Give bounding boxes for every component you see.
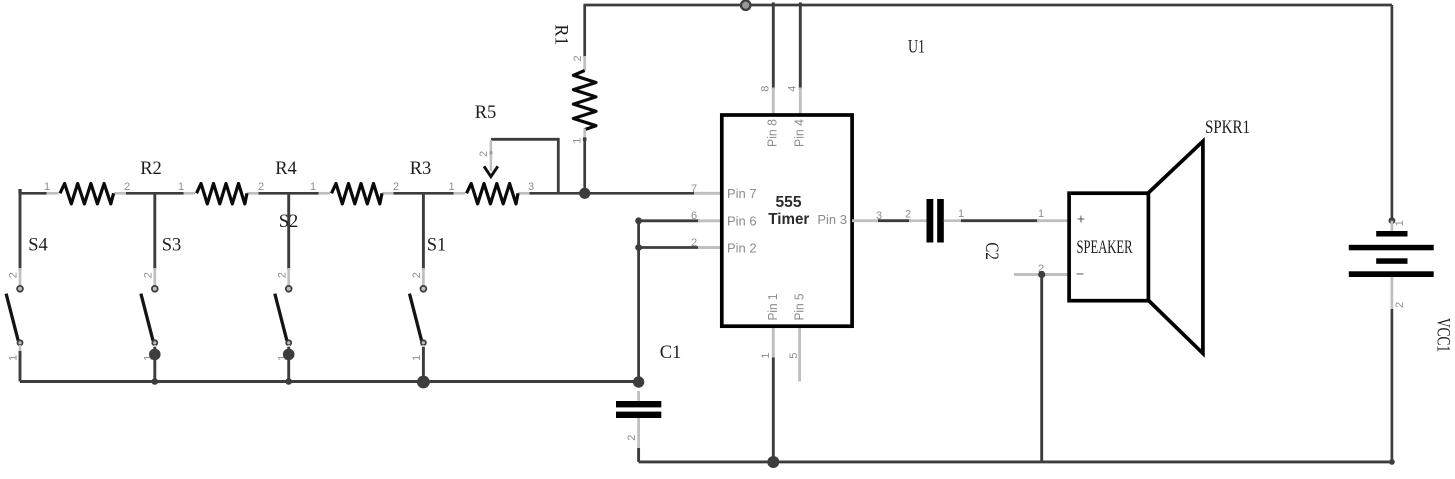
svg-text:−: −	[1076, 266, 1084, 282]
svg-text:2: 2	[478, 151, 490, 157]
capacitor C1 bottom plate	[616, 412, 661, 418]
pin marker: R1 pin 1	[583, 137, 587, 141]
svg-text:2: 2	[276, 272, 288, 278]
pin stub: U1 pin 6	[698, 219, 722, 222]
wire: top rail down to battery	[1391, 5, 1394, 221]
pin stub: U1 pin 8	[772, 88, 775, 115]
svg-text:C2: C2	[981, 242, 1001, 260]
capacitor C1 top plate	[616, 401, 661, 407]
svg-text:Pin 1: Pin 1	[765, 294, 780, 321]
svg-text:555: 555	[776, 194, 802, 211]
wire: node A down to S4	[19, 192, 22, 270]
svg-text:Pin 3: Pin 3	[817, 212, 847, 227]
wire: S1 pin1 to rail	[422, 347, 425, 382]
svg-text:R1: R1	[551, 25, 571, 46]
svg-text:3: 3	[528, 181, 534, 193]
pin stub: R3 pin 2	[382, 192, 396, 195]
svg-text:Pin 6: Pin 6	[727, 214, 757, 229]
pin stub: R1 pin 1	[583, 129, 586, 142]
node A corner nub	[18, 189, 21, 194]
node: battery pin 1 junction	[1389, 217, 1396, 224]
wire: bottom ground rail	[639, 460, 1392, 463]
svg-text:S3: S3	[162, 236, 182, 256]
svg-text:1: 1	[411, 355, 423, 361]
svg-text:7: 7	[691, 183, 697, 195]
pin stub: S3 pin 1	[153, 345, 156, 361]
battery VCC1 plate 3 (short)	[1376, 258, 1407, 264]
svg-text:1: 1	[44, 181, 50, 193]
svg-text:1: 1	[572, 138, 584, 144]
resistor R4	[197, 184, 248, 204]
wire: R2/R4 node down to S3	[153, 193, 156, 269]
svg-text:U1: U1	[908, 38, 925, 58]
switch S2 top terminal	[286, 286, 292, 292]
node: C1 top junction	[633, 376, 644, 387]
svg-text:R2: R2	[140, 159, 162, 179]
pin stub: S1 pin 1	[422, 345, 425, 361]
svg-text:2: 2	[142, 272, 154, 278]
wire: S3 pin1 to rail	[153, 347, 156, 382]
wire: pin 3 to C2	[878, 219, 911, 222]
resistor R3	[332, 184, 383, 204]
pin marker: R5 pin 2	[490, 151, 493, 154]
svg-text:6: 6	[691, 210, 697, 222]
wire: bottom-left rail	[20, 380, 639, 383]
switch S4 bottom terminal	[18, 340, 23, 345]
svg-text:Pin 7: Pin 7	[727, 186, 757, 201]
svg-text:Pin 2: Pin 2	[727, 241, 757, 256]
node: R1/R5/pin7 junction	[579, 188, 590, 199]
switch S2 blade	[275, 294, 287, 341]
wire: pin 1 to bottom rail	[772, 358, 775, 462]
wire: pin 8 vertical from rail	[772, 2, 775, 89]
pin stub: C2 pin 1	[944, 219, 963, 222]
pin stub: U1 pin 2	[698, 246, 722, 249]
svg-text:1: 1	[8, 355, 20, 361]
switch S4 top terminal	[17, 286, 23, 292]
pin stub: S2 pin 1	[287, 345, 290, 361]
switch S1 blade	[410, 294, 422, 341]
svg-text:Pin 8: Pin 8	[765, 119, 780, 147]
svg-text:2: 2	[411, 272, 423, 278]
switch S3 bottom terminal	[152, 340, 157, 345]
svg-text:4: 4	[786, 86, 798, 92]
svg-text:2: 2	[572, 55, 584, 61]
pin stub: speaker pin 2	[1014, 273, 1068, 276]
wire: R4/R3 node down to S2	[287, 193, 290, 269]
svg-text:1: 1	[178, 181, 184, 193]
svg-text:2: 2	[626, 435, 638, 441]
switch S1 top terminal	[421, 286, 427, 292]
switch S3 blade	[141, 294, 153, 341]
svg-text:Timer: Timer	[768, 211, 809, 228]
pin stub: R4 pin 1	[182, 192, 196, 195]
switch S3 top terminal	[152, 286, 158, 292]
node: pin6 junction	[635, 217, 642, 224]
capacitor C2 right plate	[937, 199, 944, 243]
wire: top VCC rail	[585, 4, 1392, 7]
svg-text:2: 2	[691, 237, 697, 249]
pin stub: R5 pin 2 wiper	[490, 140, 493, 171]
switch S2 bottom terminal	[286, 340, 291, 345]
pin stub: R2 pin 1	[44, 192, 59, 195]
svg-text:Pin 5: Pin 5	[792, 294, 807, 321]
svg-text:Pin 4: Pin 4	[792, 119, 807, 147]
wire: battery pin 2 down to ground rail	[1391, 309, 1394, 462]
pin stub: speaker pin 1	[1037, 219, 1068, 222]
pin stub: R5 pin 3	[518, 192, 532, 195]
svg-text:1: 1	[310, 181, 316, 193]
switch S1 bottom terminal	[421, 340, 426, 345]
node: top rail junction	[741, 1, 750, 10]
wire: R5.3 to U1 pin 7	[530, 192, 695, 195]
wiper arrow of R5	[484, 166, 498, 176]
potentiometer R5 body	[467, 184, 519, 204]
svg-text:1: 1	[1394, 220, 1406, 226]
pin stub: S4 pin 2	[19, 268, 22, 286]
pin stub: R1 pin 2	[583, 56, 586, 71]
resistor R2	[60, 184, 114, 204]
wire: R4.2 to R3.1	[259, 192, 319, 195]
pin stub: S3 pin 2	[153, 268, 156, 286]
wire: C1 pin2 to bottom rail	[637, 448, 640, 462]
wire: R3.2 to R5.1	[394, 192, 454, 195]
svg-text:1: 1	[1038, 208, 1044, 220]
speaker SPKR1 cone	[1149, 141, 1203, 353]
svg-text:SPKR1: SPKR1	[1205, 118, 1250, 138]
pin stub: S4 pin 1	[19, 345, 22, 361]
node: S1 rail junction	[417, 376, 430, 389]
svg-text:2: 2	[393, 181, 399, 193]
wire: pin 4 vertical from rail	[799, 2, 802, 89]
svg-text:C1: C1	[660, 343, 682, 363]
pin stub: U1 pin 5 (unconnected)	[798, 327, 801, 382]
svg-text:R3: R3	[410, 159, 432, 179]
battery VCC1 plate 4 (long)	[1349, 271, 1434, 277]
pin stub: U1 pin 4	[799, 88, 802, 115]
node: speaker minus junction	[1038, 271, 1045, 278]
svg-text:5: 5	[788, 353, 800, 359]
pin stub: R4 pin 2	[247, 192, 261, 195]
svg-text:2: 2	[258, 181, 264, 193]
battery VCC1 plate 2 (long)	[1349, 245, 1434, 251]
svg-text:SPEAKER: SPEAKER	[1077, 238, 1133, 258]
svg-text:+: +	[1077, 211, 1085, 227]
wire: S2 pin1 to rail	[287, 347, 290, 382]
svg-text:2: 2	[8, 272, 20, 278]
pin stub: U1 pin 3	[852, 219, 880, 222]
wire: R5 wiper to pin3 net	[491, 139, 558, 193]
svg-text:8: 8	[759, 86, 771, 92]
wire: speaker minus down to ground rail	[1040, 275, 1043, 462]
svg-text:2: 2	[905, 209, 911, 221]
svg-text:1: 1	[448, 181, 454, 193]
wire: to U1 pin 6	[639, 219, 700, 222]
wire: R3/R5 node down to S1	[422, 193, 425, 269]
speaker SPKR1 box	[1069, 193, 1148, 301]
resistor R1 (vertical zigzag)	[573, 71, 596, 130]
svg-text:R5: R5	[475, 103, 497, 123]
svg-text:1: 1	[958, 208, 964, 220]
pin stub: U1 pin 1	[772, 327, 775, 359]
node: S3 rail junction	[152, 378, 159, 385]
svg-text:S1: S1	[427, 236, 447, 256]
node: pin1 rail junction	[767, 456, 779, 468]
node: S3 wire junction	[149, 349, 161, 361]
pin stub: C1 pin 1	[637, 391, 640, 402]
svg-text:2: 2	[124, 181, 130, 193]
wire: C2 to speaker plus	[961, 219, 1039, 222]
wire: pin6/pin2/C1 vertical net	[637, 221, 640, 382]
svg-text:2: 2	[1394, 302, 1406, 308]
svg-text:S4: S4	[28, 236, 48, 256]
pin stub: S2 pin 2	[287, 268, 290, 286]
pin stub: S1 pin 2	[422, 268, 425, 286]
pin stub: R5 pin 1	[452, 192, 466, 195]
pin stub: U1 pin 7	[694, 192, 722, 195]
svg-text:S2: S2	[279, 212, 299, 232]
wire: R1 pin1 down to main node	[583, 139, 586, 193]
svg-text:R4: R4	[275, 159, 297, 179]
pin stub: VCC1 pin 1	[1391, 221, 1394, 232]
wire: S4 pin1 to bottom-left rail	[19, 351, 22, 382]
battery VCC1 plate 1 (short)	[1376, 231, 1407, 237]
svg-text:1: 1	[760, 353, 772, 359]
svg-text:VCC1: VCC1	[1433, 318, 1453, 352]
wire: node A to R2.1	[20, 192, 47, 195]
wire: rail corner down to R1 pin 2	[583, 4, 586, 58]
pin stub: R3 pin 1	[317, 192, 331, 195]
capacitor C2 left plate	[927, 199, 934, 243]
node: battery rail corner	[1389, 459, 1395, 465]
pin stub: R2 pin 2	[114, 192, 128, 195]
node: S2 wire junction	[283, 349, 295, 361]
wire: R2.2 to R4.1	[126, 192, 184, 195]
pin stub: VCC1 pin 2	[1391, 277, 1394, 310]
switch S4 blade	[6, 294, 18, 341]
pin stub: C2 pin 2	[909, 219, 927, 222]
pin stub: C1 pin 2	[637, 418, 640, 451]
node: S2 rail junction	[285, 378, 292, 385]
node: pin2 junction	[635, 244, 642, 251]
wire: to U1 pin 2	[639, 246, 700, 249]
op-amp U1: 555 timer body	[722, 115, 852, 326]
